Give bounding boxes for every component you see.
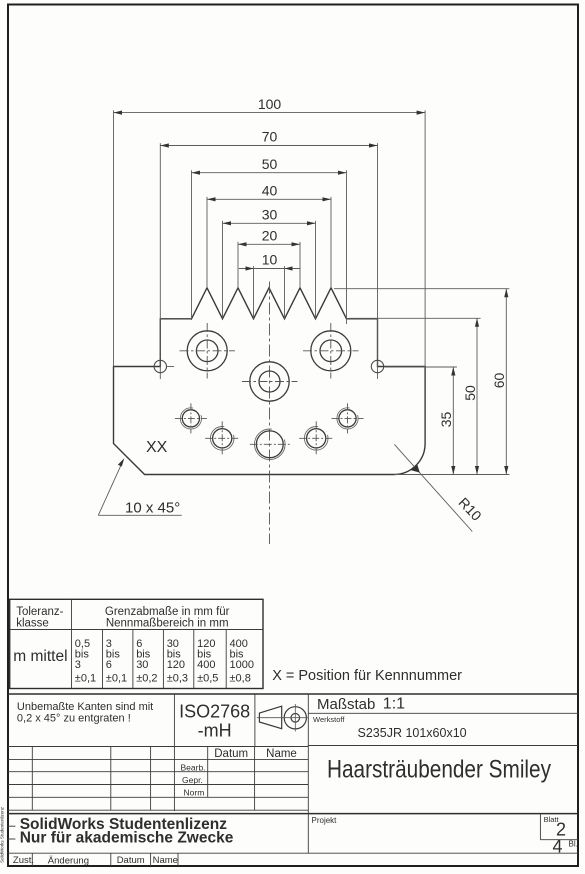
mouth hole C (center, tapped) [250, 429, 290, 460]
svg-text:30: 30 [262, 207, 278, 223]
eye hole left (counterbore) [180, 323, 236, 379]
svg-text:m mittel: m mittel [13, 648, 67, 665]
svg-text:Name: Name [266, 748, 297, 760]
part outline: plate with serrated top, chamfer bottom-left, R10 bottom-right [114, 288, 426, 475]
svg-text:-mH: -mH [198, 721, 232, 741]
dimension 35 (vertical right) [438, 367, 455, 475]
ext 70 [159, 143, 161, 379]
svg-text:ISO2768: ISO2768 [179, 702, 250, 722]
svg-text:Zust.: Zust. [13, 855, 34, 866]
svg-text:10 x 45°: 10 x 45° [125, 499, 180, 516]
svg-text:30: 30 [136, 659, 148, 671]
svg-text:S235JR 101x60x10: S235JR 101x60x10 [358, 726, 467, 740]
dimension 50 (vertical right) [462, 318, 479, 474]
svg-text:XX: XX [146, 439, 168, 456]
svg-text:Haarsträubender Smiley: Haarsträubender Smiley [327, 756, 551, 784]
svg-text:70: 70 [262, 129, 278, 145]
svg-text:klasse: klasse [16, 618, 49, 630]
svg-text:SolidWorks Studentenlizenz: SolidWorks Studentenlizenz [0, 806, 5, 863]
svg-text:±0,2: ±0,2 [136, 673, 157, 685]
dimension 100 [114, 96, 426, 115]
svg-text:±0,1: ±0,1 [75, 673, 96, 685]
svg-text:Datum: Datum [214, 748, 248, 760]
svg-text:1000: 1000 [230, 659, 254, 671]
svg-text:Nennmaßbereich in mm: Nennmaßbereich in mm [106, 618, 229, 630]
svg-text:Bl.: Bl. [569, 840, 578, 849]
svg-text:1:1: 1:1 [383, 696, 405, 713]
svg-text:±0,1: ±0,1 [106, 673, 127, 685]
svg-text:6: 6 [106, 659, 112, 671]
mouth hole D (tapped) [299, 421, 333, 455]
dimension 20 [238, 228, 300, 247]
ext 100 left / right [113, 110, 115, 366]
ext 40 [206, 197, 208, 288]
svg-text:Änderung: Änderung [48, 856, 89, 867]
left margin ticks [8, 826, 16, 839]
eye hole right (counterbore) [303, 323, 359, 379]
extension lines (thin) [114, 110, 510, 474]
svg-text:±0,8: ±0,8 [230, 673, 251, 685]
ext 50 [191, 170, 193, 320]
svg-text:0,2 x 45° zu entgraten !: 0,2 x 45° zu entgraten ! [17, 713, 131, 725]
ISO2768 -mH [179, 702, 250, 741]
svg-text:Projekt: Projekt [312, 816, 338, 825]
corner relief hole right [371, 360, 383, 372]
svg-text:50: 50 [462, 385, 478, 401]
first-angle projection symbol [259, 706, 306, 729]
revision strip labels [13, 855, 178, 867]
svg-text:Maßstab: Maßstab [317, 696, 375, 713]
svg-text:40: 40 [262, 183, 278, 199]
svg-text:Norm: Norm [184, 787, 205, 797]
mouth hole B (tapped) [205, 421, 239, 455]
ext 20 [237, 242, 239, 288]
svg-text:Bearb.: Bearb. [181, 763, 206, 773]
right side horizontal ext lines [334, 288, 509, 290]
chamfer leader 10 x 45 [98, 458, 182, 516]
svg-text:Nur für akademische Zwecke: Nur für akademische Zwecke [20, 830, 234, 847]
svg-text:120: 120 [167, 659, 185, 671]
svg-text:100: 100 [258, 96, 282, 112]
svg-text:400: 400 [197, 659, 215, 671]
tolerance table [10, 599, 263, 688]
svg-text:±0,3: ±0,3 [167, 673, 188, 685]
svg-text:Datum: Datum [117, 855, 145, 866]
title block lines [8, 694, 578, 814]
ext 30 [222, 221, 224, 319]
svg-text:4: 4 [552, 837, 562, 857]
svg-text:3: 3 [75, 659, 81, 671]
svg-text:Unbemaßte Kanten sind mit: Unbemaßte Kanten sind mit [17, 701, 153, 713]
ext 10 [253, 266, 255, 319]
dimension 70 [160, 129, 377, 148]
svg-text:Toleranz-: Toleranz- [16, 606, 63, 618]
nose hole (counterbore) [242, 362, 298, 401]
svg-text:Werkstoff: Werkstoff [313, 715, 345, 724]
dimension 60 (vertical right) [491, 289, 508, 475]
Bearb / Gepr / Norm [181, 763, 206, 798]
svg-text:Gepr.: Gepr. [182, 775, 203, 785]
mouth hole A (far left, tapped) [175, 403, 207, 433]
svg-text:±0,5: ±0,5 [197, 673, 218, 685]
svg-text:60: 60 [491, 373, 507, 389]
svg-text:Name: Name [153, 855, 178, 866]
dimension 30 [223, 207, 316, 226]
deburr note [17, 701, 153, 725]
corner relief hole left [154, 360, 166, 372]
dimension 10 (arrows outside) [239, 252, 301, 271]
svg-text:10: 10 [262, 252, 278, 268]
svg-text:50: 50 [262, 156, 278, 172]
vertical centerline of part [269, 282, 271, 545]
dimension 40 [207, 183, 331, 202]
R10 leader [394, 444, 485, 531]
svg-text:X = Position für Kennnummer: X = Position für Kennnummer [272, 668, 462, 684]
svg-text:Grenzabmaße in mm für: Grenzabmaße in mm für [105, 606, 230, 618]
dimension 50 [192, 156, 347, 175]
svg-text:35: 35 [438, 412, 454, 428]
SolidWorks license note [20, 816, 234, 847]
svg-text:20: 20 [262, 228, 278, 244]
mouth hole E (far right, tapped) [332, 403, 364, 433]
